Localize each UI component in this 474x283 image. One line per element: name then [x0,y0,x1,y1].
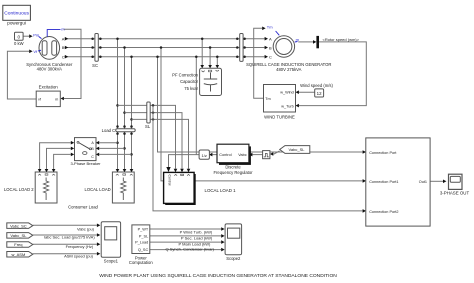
svg-text:Vabc: Vabc [238,153,246,157]
svg-text:Scope1: Scope1 [104,259,119,264]
wire: bus phase C stub down to control area [195,55,198,154]
excitation block [36,85,60,107]
svg-text:powergui: powergui [7,21,26,26]
svg-text:Tm: Tm [267,25,273,30]
wire: Vabc_SC tag to Scope1 [33,224,101,228]
junction dots around SC measurement bar [91,37,101,58]
svg-text:Vabc_SL: Vabc_SL [10,233,27,238]
svg-text:ASM speed (pu): ASM speed (pu) [64,254,94,259]
svg-text:SC: SC [92,63,98,68]
svg-text:Control: Control [167,175,171,186]
three-phase subsystem block [366,138,430,226]
svg-text:480V 275kVA: 480V 275kVA [276,67,302,72]
wire: rotor speed feedback to w_Turb [296,42,367,108]
wire: phase A drop to loads [116,37,120,172]
svg-text:C: C [91,155,94,159]
svg-text:w_ASM: w_ASM [12,252,26,257]
scope2 block [225,224,242,261]
svg-text:Out1: Out1 [419,180,427,184]
svg-text:Continuous: Continuous [4,11,29,17]
junction dots around ASM measurement bar [236,37,246,58]
svg-text:P_Load: P_Load [135,241,148,245]
svg-text:Q Synch. Condenser (kvar): Q Synch. Condenser (kvar) [166,247,215,252]
svg-text:C: C [269,55,272,60]
wire: breaker right phase A tap [96,141,118,145]
svg-text:Connection Port2: Connection Port2 [369,210,398,214]
svg-text:Vabc_SL: Vabc_SL [289,147,306,152]
diagram title [99,273,337,279]
svg-text:P_WT: P_WT [138,228,149,232]
svg-text:SL: SL [145,124,151,129]
wire: top bus phase C [65,55,269,59]
svg-text:3-Phase Breaker: 3-Phase Breaker [70,161,101,166]
synchronous condenser machine [26,27,73,72]
wire: lower bus phase A to secondary load [118,104,178,172]
w_ASM from tag [7,252,33,258]
squirrel cage induction generator [246,25,331,72]
wire: P_SL to Scope2 [150,234,225,238]
Vabc_SL from tag (scope) [7,233,33,239]
svg-text:Pm: Pm [33,33,40,38]
wire: top bus phase B [65,46,269,50]
discrete filter block [263,151,270,159]
wire: Freq tag to Scope1 [33,242,101,246]
svg-text:w_Wind: w_Wind [280,91,294,95]
svg-text:P_SL: P_SL [139,235,148,239]
svg-text:Iabc Sec. Load (pu/275 kVA): Iabc Sec. Load (pu/275 kVA) [44,235,96,240]
discrete frequency regulator block [213,144,253,175]
unit delay 1/z block [199,150,209,159]
wire: wind speed constant to w_Wind [296,90,315,94]
svg-text:1/z: 1/z [202,153,207,158]
svg-text:P Sec. Load (kW): P Sec. Load (kW) [181,235,213,240]
wire: PF capacitor phase B tap [208,46,212,68]
svg-text:PF Correction: PF Correction [172,72,199,77]
LOCAL LOAD 1 block (secondary load, selected/bold) [164,172,237,205]
scope1 wire labels [44,226,96,258]
wire: connection port 1 feed [160,46,366,182]
wire: breaker left phase B to LOCAL LOAD 2 [45,147,74,173]
wire: lower bus phase B to secondary load [125,111,184,172]
wire: P_WT to Scope2 [150,227,225,231]
svg-text:0 kW: 0 kW [14,41,24,46]
svg-text:P Wind Turb. (kW): P Wind Turb. (kW) [180,230,213,235]
wire: subsystem Out1 to 3-PHASE OUT [430,180,446,184]
wire: w_ASM tag to Scope1 [33,252,101,256]
constant 0 kW block [14,32,24,46]
wire: Vabc_SL tag to Scope1 [33,233,101,237]
wire: top bus phase A [65,37,269,41]
svg-text:WIND POWER PLANT USING SQUIREL: WIND POWER PLANT USING SQUIRELL CAGE IND… [99,273,337,279]
wire: phase B drop to loads [123,46,127,172]
wire: machine m output to excitation m input [61,29,82,100]
wire: regulator control to 1/z [209,153,217,157]
wire: connection port 2 feed [153,105,366,212]
svg-text:Q_SC: Q_SC [138,248,149,252]
svg-text:Freq: Freq [14,242,22,247]
svg-text:Connection Port1: Connection Port1 [369,180,398,184]
svg-text:LOCAL LOAD: LOCAL LOAD [85,187,111,192]
wire: Vabc_SL tag to filter [270,151,280,156]
scope2 wire labels [166,230,215,252]
wire: breaker left phase C to LOCAL LOAD 2 [52,153,74,173]
wind turbine block [264,85,296,120]
svg-text:WIND TURBINE: WIND TURBINE [264,115,295,120]
svg-text:Excitation: Excitation [39,85,59,90]
svg-text:A: A [62,36,65,41]
3-phase breaker block [70,138,101,167]
wire: wind turbine Tm to generator [254,27,266,99]
svg-text:LOCAL LOAD 2: LOCAL LOAD 2 [4,187,34,192]
svg-text:12: 12 [317,91,322,96]
svg-text:B: B [62,45,65,50]
wire: P_Load to Scope2 [150,240,225,244]
svg-text:3-PHASE OUT: 3-PHASE OUT [440,191,470,196]
wire: breaker right phase B tap [96,147,125,151]
svg-text:Vabc_SC: Vabc_SC [10,223,27,228]
svg-text:B: B [269,45,272,50]
svg-text:LOCAL LOAD 1: LOCAL LOAD 1 [205,188,237,193]
wind speed constant 12 [300,83,333,97]
svg-text:Capacitor: Capacitor [180,79,199,84]
load current measurement bar [102,128,136,133]
wire: generator m to bus selector [298,40,316,44]
wire: 1/z output to secondary load control port [166,155,199,172]
svg-text:Discrete: Discrete [225,165,241,170]
wire: breaker right phase C tap [96,153,132,157]
svg-text:m: m [55,97,58,101]
LOCAL LOAD 2 block [4,172,57,203]
wire: PF capacitor phase C tap [216,55,220,68]
Freq from tag [7,242,33,248]
wire: connection port 0 feed [156,55,366,153]
svg-text:0: 0 [18,34,21,39]
svg-text:480V 300kVA: 480V 300kVA [37,67,63,72]
wire: PF capacitor phase A tap [200,37,204,68]
Vabc_SC from tag [7,223,33,229]
consumer load label [68,204,98,209]
svg-text:Control: Control [219,153,231,157]
svg-text:Vabc (pu): Vabc (pu) [77,226,95,231]
wire: lower bus phase C to secondary load [132,118,191,172]
wire: Q_SC to Scope2 [150,248,225,252]
wire: phase C drop to loads [130,55,134,172]
wire: excitation vf feedback to machine Vf [7,50,36,100]
svg-text:w_Turb: w_Turb [281,104,294,108]
wire: breaker left phase A to LOCAL LOAD 2 [38,141,74,173]
LOCAL LOAD block [85,172,135,203]
svg-text:A: A [269,36,272,41]
svg-text:Tm: Tm [265,97,270,101]
svg-text:P Main Load (kW): P Main Load (kW) [178,241,211,246]
wire: Pm constant to synchronous machine [23,34,32,38]
3-PHASE OUT scope block [440,174,470,195]
wire: filter to regulator Vabc input [249,153,263,157]
svg-text:Computation: Computation [129,260,153,265]
power computation block [129,225,153,265]
svg-text:Scope2: Scope2 [226,256,241,261]
SC three-phase measurement bar [92,34,98,69]
svg-text:C: C [62,54,65,59]
svg-text:Wind speed (m/s): Wind speed (m/s) [300,83,333,88]
ASM three-phase measurement bar [240,34,243,62]
bus selector for rotor speed [316,36,359,48]
svg-text:Connection Port: Connection Port [369,151,397,155]
svg-text:Frequency Regulator: Frequency Regulator [213,170,253,175]
PF correction capacitor block [172,68,221,95]
scope1 block [101,222,120,264]
SL measurement bar [145,102,151,129]
Vabc_SL from tag (regulator) [280,146,310,154]
powergui block [3,5,31,25]
svg-text:<Rotor speed (wm)>: <Rotor speed (wm)> [323,37,360,42]
svg-text:Consumer Load: Consumer Load [68,204,98,209]
svg-text:Frequency (Hz): Frequency (Hz) [66,244,94,249]
svg-text:75 kvar: 75 kvar [184,86,198,91]
svg-text:Load C: Load C [102,128,116,133]
